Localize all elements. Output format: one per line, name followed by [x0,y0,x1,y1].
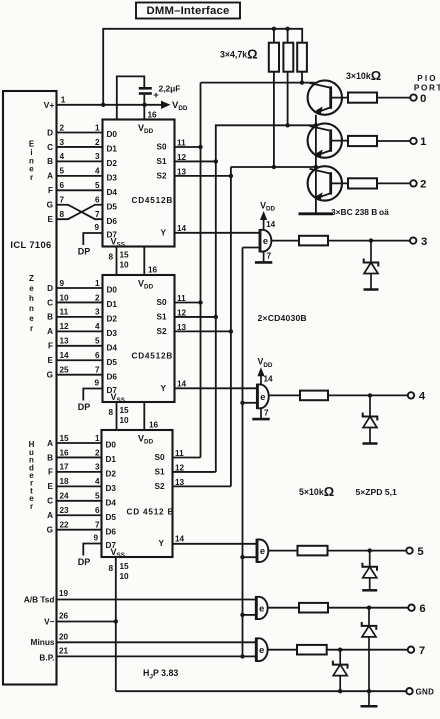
wire resistor to terminal 5 [328,550,407,552]
title box DMM-Interface [136,3,240,19]
svg-text:S2: S2 [156,171,166,180]
wire S0 to bus [175,146,201,148]
svg-text:e: e [259,645,264,655]
terminal PIO 2 [410,180,416,186]
svg-text:6: 6 [95,196,100,205]
node BP gate U3a [240,555,244,559]
svg-text:12: 12 [60,322,70,331]
wire gate to resistor out7 [268,649,298,651]
svg-text:ICL 7106: ICL 7106 [10,240,51,250]
svg-text:4: 4 [60,152,65,161]
svg-text:B: B [47,453,53,462]
node V+ junction [101,103,105,107]
wire pin16 chip2 to chip3 [143,402,145,430]
wire Q1 collector line [201,82,315,84]
svg-text:3: 3 [95,463,100,472]
node zener junction out3 [369,238,373,242]
svg-text:DP: DP [78,247,91,257]
wire cap to VDD rail / pin16 stub [143,95,145,120]
svg-text:V+: V+ [44,100,55,110]
wire segment pin 4 to D2 [57,160,103,162]
terminal 6 [408,605,414,611]
svg-text:D3: D3 [107,173,118,182]
node BP gate U3b [240,613,244,617]
resistor out5 10k [298,546,328,556]
svg-text:V−: V− [44,617,55,627]
svg-text:VDD: VDD [258,357,273,369]
wire V+ up and across top [103,29,302,105]
wire segment pin 13 to D4 [57,345,103,347]
svg-text:14: 14 [266,220,276,229]
svg-text:D0: D0 [107,130,118,139]
svg-text:16: 16 [149,421,159,430]
wire S1 bus [215,124,217,472]
wire segment pin 16 to D1 [57,456,103,458]
svg-text:CD 4512 B: CD 4512 B [127,508,175,517]
svg-text:6: 6 [95,351,100,360]
svg-text:9: 9 [60,279,65,288]
svg-text:G: G [47,201,53,210]
svg-text:G: G [47,526,53,535]
svg-text:B: B [47,313,53,322]
svg-text:16: 16 [147,111,157,120]
svg-text:14: 14 [177,380,187,389]
svg-text:2: 2 [95,293,100,302]
transistor Q3 BC238 [308,166,348,200]
wire BP segment to gate U3c input [243,655,257,657]
wire segment pin 25 to D6 [57,374,103,376]
svg-text:A/B Tsd: A/B Tsd [24,595,55,605]
svg-text:D1: D1 [106,455,117,464]
svg-text:4: 4 [95,167,100,176]
svg-text:7: 7 [95,521,100,530]
svg-text:5×ZPD 5,1: 5×ZPD 5,1 [356,487,398,497]
svg-text:2: 2 [60,123,65,132]
wire resistor to terminal 3 [328,240,410,242]
svg-text:r: r [30,502,33,511]
wire segment pin 12 to D3 [57,330,103,332]
svg-text:DP: DP [78,557,91,567]
svg-text:CD4512B: CD4512B [132,196,174,205]
svg-text:Z: Z [29,274,34,283]
svg-text:DMM–Interface: DMM–Interface [147,5,230,17]
svg-text:S1: S1 [154,467,164,476]
svg-text:D1: D1 [107,300,118,309]
svg-text:6: 6 [419,603,425,615]
node zener junction out4 [368,393,372,397]
svg-text:2: 2 [95,138,100,147]
wire segment pin 9 to D0 [57,287,103,289]
node VDD junction at cap [142,103,146,107]
svg-text:D0: D0 [107,286,118,295]
node zener junction out6 [367,606,371,610]
ground pin7 gate U2b [260,408,262,418]
node R5 join Q2 [285,123,289,127]
wire gate to resistor out4 [269,394,301,396]
terminal GND [406,688,412,694]
svg-text:A: A [47,172,53,181]
svg-text:1: 1 [95,123,100,132]
wire gate to resistor out5 [268,550,297,552]
wire BP bus vertical [242,248,244,657]
svg-text:2×CD4030B: 2×CD4030B [258,313,307,323]
svg-text:E: E [48,356,54,365]
svg-text:15: 15 [60,434,70,443]
svg-text:7: 7 [267,252,272,261]
svg-text:G: G [47,371,53,380]
svg-text:VDD: VDD [138,434,154,446]
svg-text:B: B [47,157,53,166]
wire segment pin 15 to D0 [57,442,103,444]
wire segment pin 3 to D1 [57,146,103,148]
wire S0 bus [200,83,202,458]
svg-text:F: F [48,342,53,351]
resistor out6 10k [299,603,328,613]
svg-text:D: D [47,284,53,293]
svg-text:3: 3 [421,236,427,248]
wire segment pin 6 to D4 [57,189,103,191]
wire DP to D7 [83,389,102,401]
wire Q2 collector line [216,124,316,126]
zener D3 out5 [369,551,371,567]
wire Y chip3 to gate U3a [173,543,258,545]
svg-text:A: A [47,511,53,520]
wire to PIO 2 [377,182,410,184]
svg-text:D3: D3 [106,484,117,493]
node zener D5 at rail [338,689,342,693]
svg-text:Y: Y [161,229,167,238]
node pullup stub R5 [285,27,289,31]
wire ground rail [116,690,407,692]
node zener junction out7 [338,648,342,652]
svg-text:Minus: Minus [31,637,55,647]
gate U2b XOR [257,384,268,410]
wire S0 to bus [175,302,201,304]
svg-text:D5: D5 [107,358,118,367]
wire S1 to bus [175,160,216,162]
svg-text:2,2μF: 2,2μF [159,84,181,94]
svg-text:+: + [153,90,159,101]
svg-text:5: 5 [95,337,100,346]
node BP at B.P. line [240,654,244,658]
svg-text:6: 6 [95,506,100,515]
svg-text:D2: D2 [107,315,118,324]
svg-text:D4: D4 [107,343,118,352]
wire S2 to bus [173,485,231,487]
svg-text:VDD: VDD [138,279,154,291]
svg-text:D7: D7 [107,231,118,240]
wire V+ pin1 to VDD rail [57,104,162,106]
svg-text:10: 10 [60,293,70,302]
svg-text:1: 1 [95,279,100,288]
svg-text:E: E [48,482,54,491]
svg-text:1: 1 [95,434,100,443]
wire segment pin 17 to D2 [57,471,103,473]
svg-text:HJP 3.83: HJP 3.83 [143,668,178,681]
wire resistor to terminal 6 [328,607,408,609]
gate U3c XOR [256,638,267,662]
svg-text:5×10kΩ: 5×10kΩ [299,484,334,499]
wire BP to gate U2b input [243,402,258,404]
IC U1 ICL 7106 [3,91,57,685]
resistor R3 10k [348,178,377,188]
svg-text:22: 22 [60,521,70,530]
terminal PIO 0 [410,94,416,100]
svg-text:3: 3 [60,138,65,147]
wire segment pin 8 E crossing to D5 [57,205,103,219]
svg-text:VDD: VDD [172,100,188,112]
svg-text:Y: Y [159,539,165,548]
svg-text:VDD: VDD [260,201,275,213]
svg-text:3: 3 [95,152,100,161]
wire Y chip2 to gate U2b [175,387,258,389]
wire stub to R5 [287,29,289,43]
capacitor C1 2,2uF [139,87,152,90]
svg-text:17: 17 [60,463,70,472]
svg-text:2: 2 [420,179,426,191]
svg-text:D5: D5 [106,513,117,522]
svg-text:5: 5 [95,492,100,501]
node pullup stub R4 [272,27,276,31]
wire BP to gate U2a input [243,247,261,249]
svg-text:D: D [47,128,53,137]
svg-text:1: 1 [61,96,66,105]
svg-text:D7: D7 [107,386,118,395]
ground symbol main [368,691,370,705]
zener D5 out7 to ground rail [339,650,341,665]
svg-text:24: 24 [60,492,70,501]
gate U3b XOR [256,596,267,620]
svg-text:S1: S1 [156,312,166,321]
wire R5 to Q2 collector line [287,72,289,126]
svg-text:D7: D7 [106,541,117,550]
gate U3a XOR [257,539,268,563]
svg-text:Y: Y [161,384,167,393]
svg-text:9: 9 [93,534,98,543]
wire Y chip1 to gate U2a [175,232,261,234]
svg-text:D2: D2 [106,470,117,479]
wire resistor to terminal 7 [327,649,408,651]
svg-text:16: 16 [60,448,70,457]
resistor R6 4,7k [297,43,307,72]
wire segment pin 10 to D1 [57,301,103,303]
svg-text:5: 5 [417,546,423,558]
svg-text:7: 7 [419,645,425,657]
wire gate to resistor out3 [271,240,299,242]
svg-text:e: e [29,314,34,323]
svg-text:e: e [260,546,265,556]
wire VSS chip1 to chip2 [116,247,118,276]
svg-text:15: 15 [120,251,130,260]
wire DP to D7 [83,233,102,245]
svg-text:D4: D4 [106,498,117,507]
svg-text:S0: S0 [154,453,164,462]
node R4 join Q3 [272,165,276,169]
resistor out7 10k [297,645,327,655]
svg-text:4: 4 [419,391,426,403]
svg-text:4: 4 [95,477,100,486]
wire DP to D7 [83,544,102,556]
svg-text:n: n [29,304,34,313]
svg-text:20: 20 [59,633,69,642]
svg-text:13: 13 [60,337,70,346]
zener D1 out3 [370,241,372,263]
resistor R2 10k [348,136,377,146]
wire segment pin 7 G crossing to D6 [57,205,103,219]
wire Minus to gate U3c [57,641,257,643]
svg-text:3×4,7kΩ: 3×4,7kΩ [220,47,258,62]
wire BP to gate U3a input [243,556,258,558]
svg-text:14: 14 [60,351,70,360]
svg-text:19: 19 [59,589,69,598]
svg-text:0: 0 [420,93,426,105]
terminal 7 [408,647,414,653]
svg-text:23: 23 [60,506,70,515]
svg-text:C: C [47,298,53,307]
gate U2a XOR [260,229,271,252]
svg-text:3: 3 [95,308,100,317]
svg-text:8: 8 [108,408,113,417]
power VDD gate U2a [263,217,265,230]
node zener D4 at rail [367,689,371,693]
svg-text:8: 8 [60,210,65,219]
svg-text:PORT: PORT [414,83,440,92]
svg-text:A: A [47,327,53,336]
svg-text:D6: D6 [106,527,117,536]
svg-text:5: 5 [60,167,65,176]
transistor Q1 BC238 [308,80,348,114]
terminal PIO 1 [410,138,416,144]
svg-text:CD4512B: CD4512B [132,352,174,361]
svg-text:r: r [30,173,33,182]
wire segment pin 23 to D5 [57,514,103,516]
ground emitter chain [299,212,334,215]
wire S2 bus [230,167,232,487]
VDD arrow terminal [161,101,171,109]
svg-text:9: 9 [94,379,99,388]
svg-text:e: e [29,284,34,293]
resistor R4 4,7k [269,43,279,72]
wire B.P. from ICL [57,655,243,657]
wire S1 to bus [173,471,216,473]
wire R4 to Q3 collector line [273,72,275,167]
resistor out4 10k [300,391,328,401]
wire BP to gate U3b input [243,614,257,616]
svg-text:14: 14 [177,224,187,233]
svg-text:26: 26 [59,612,69,621]
svg-text:S0: S0 [156,298,166,307]
svg-text:D1: D1 [107,145,118,154]
svg-text:D3: D3 [107,329,118,338]
svg-text:10: 10 [120,416,130,425]
svg-text:e: e [260,392,265,402]
svg-text:VDD: VDD [138,123,154,135]
wire segment pin 18 to D3 [57,485,103,487]
resistor out3 10k [299,236,328,246]
wire segment pin 24 to D4 [57,500,103,502]
svg-text:h: h [29,294,34,303]
wire segment pin 2 to D0 [57,132,103,134]
svg-text:5: 5 [95,181,100,190]
svg-text:D4: D4 [107,188,118,197]
node R6 join Q1 [300,80,304,84]
svg-text:25: 25 [60,366,70,375]
wire V- to VSS chain [57,621,116,623]
node Q3 collector junction [314,165,318,169]
svg-text:8: 8 [108,564,113,573]
svg-text:S2: S2 [154,482,164,491]
svg-text:S1: S1 [156,157,166,166]
wire pin16 chip1 to chip2 [143,247,145,276]
wire S2 to bus [175,175,231,177]
node zener junction out5 [368,548,372,552]
svg-text:10: 10 [120,261,130,270]
svg-text:S0: S0 [156,143,166,152]
svg-text:10: 10 [120,572,130,581]
wire segment pin 14 to D5 [57,359,103,361]
svg-text:e: e [259,603,264,613]
wire cap loop to chip top [117,76,145,119]
svg-text:3×BC 238 B oä: 3×BC 238 B oä [331,207,389,217]
svg-text:F: F [48,186,53,195]
wire segment pin 11 to D2 [57,316,103,318]
svg-text:S2: S2 [156,327,166,336]
wire VSS chip3 to ground rail [115,558,117,691]
svg-text:D6: D6 [107,372,118,381]
node BP gate U2b [240,401,244,405]
wire segment pin 22 to D6 [57,529,103,531]
svg-text:7: 7 [60,196,65,205]
resistor R5 4,7k [283,43,293,72]
svg-text:16: 16 [148,266,158,275]
wire to PIO 1 [377,140,410,142]
svg-text:14: 14 [175,535,185,544]
terminal 3 [410,237,416,243]
svg-text:3×10kΩ: 3×10kΩ [346,68,381,83]
svg-text:B.P.: B.P. [39,652,54,662]
svg-text:D6: D6 [107,217,118,226]
wire VSS chip2 to chip3 [116,402,118,430]
svg-text:21: 21 [59,647,69,656]
transistor Q2 BC238 [308,123,348,157]
power VDD gate U2b [260,373,262,384]
wire A/B Tsd to gate U3b [57,599,257,601]
svg-text:F: F [48,468,53,477]
IC CD4512B #2 [103,275,175,402]
svg-text:r: r [30,324,33,333]
wire emitter chain [315,115,317,213]
svg-text:2: 2 [95,448,100,457]
svg-text:1: 1 [420,136,426,148]
terminal 5 [406,547,412,553]
svg-text:PIO: PIO [417,74,437,83]
svg-text:9: 9 [94,223,99,232]
svg-text:18: 18 [60,477,70,486]
wire R6 to Q1 collector line [301,72,303,83]
wire resistor to terminal 4 [328,394,408,396]
svg-text:11: 11 [60,308,69,317]
wire Q3 collector line [231,166,316,168]
svg-text:DP: DP [78,402,91,412]
IC CD4512B #1 [103,120,175,247]
resistor R1 10k [348,93,377,103]
svg-text:4: 4 [95,322,100,331]
svg-text:14: 14 [264,374,274,383]
svg-text:8: 8 [108,253,113,262]
svg-text:E: E [48,215,54,224]
svg-text:7: 7 [95,366,100,375]
svg-text:C: C [47,143,53,152]
